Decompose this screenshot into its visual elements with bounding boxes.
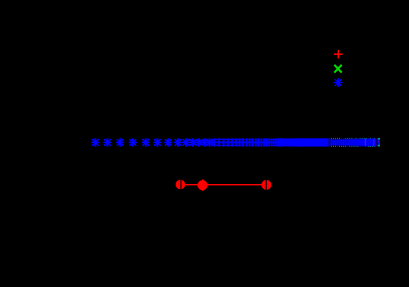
legend sample marker: green X (series 2) <box>334 65 341 73</box>
red filled circle marker 2 (middle) <box>197 180 207 190</box>
dark slit over right circle <box>266 180 267 190</box>
red connecting line of circle series <box>176 184 266 186</box>
textured band vertical bright bars with castellated tips <box>331 138 375 146</box>
final converged cluster: teal bottom row <box>378 145 380 147</box>
magenta column speckle 2 <box>373 139 376 147</box>
red vertical stub behind middle circle <box>202 179 204 190</box>
final cluster magenta speck <box>377 140 380 143</box>
black slit holes between dense markers (theta pattern) <box>215 140 277 145</box>
red filled circle marker 3 (right) <box>261 180 271 190</box>
final converged cluster: teal top row <box>378 138 380 140</box>
legend sample marker: red plus (series 1) <box>334 50 343 59</box>
textured band dark inner columns <box>332 140 374 144</box>
final converged cluster: blue middle <box>378 140 380 145</box>
blue asterisk data markers (converging sequence) <box>91 138 305 146</box>
legend sample marker: blue asterisk (series 3) <box>334 78 343 87</box>
textured band base <box>331 139 377 145</box>
magenta column speckle 1 <box>364 139 367 147</box>
bright band right-edge segment <box>374 138 376 146</box>
dense overlap region: midline <box>237 142 300 143</box>
solid dense blue band <box>300 138 329 146</box>
dim column between solid and textured bands <box>329 138 331 146</box>
dark slit over left circle <box>180 180 181 190</box>
teal tip speckles top edge <box>331 138 375 147</box>
red filled circle marker 1 (left) <box>176 180 186 190</box>
